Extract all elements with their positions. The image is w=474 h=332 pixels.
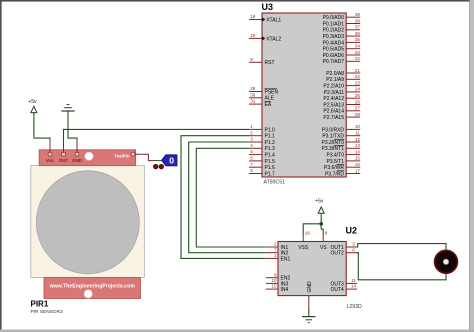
svg-text:14: 14 bbox=[351, 284, 357, 289]
svg-text:6: 6 bbox=[250, 156, 253, 161]
wire +5v down to junction bbox=[320, 213, 322, 229]
U3 pin 27 P2.6/A14 bbox=[323, 106, 360, 115]
IC U3 AT89C51 body bbox=[262, 13, 346, 177]
svg-text:L293D: L293D bbox=[347, 304, 363, 310]
svg-text:XTAL1: XTAL1 bbox=[266, 17, 281, 23]
svg-text:Vcc: Vcc bbox=[46, 158, 55, 163]
U2 pin 2 IN1 bbox=[266, 242, 289, 251]
svg-text:3: 3 bbox=[250, 137, 253, 142]
svg-text:+5v: +5v bbox=[315, 199, 324, 205]
svg-text:PIR1: PIR1 bbox=[31, 300, 49, 309]
svg-text:+5v: +5v bbox=[28, 99, 37, 105]
svg-text:P3.0/RXD: P3.0/RXD bbox=[322, 127, 345, 133]
U2 pin 10 IN3 bbox=[266, 278, 289, 287]
svg-text:U3: U3 bbox=[262, 2, 274, 12]
svg-text:GND: GND bbox=[307, 281, 313, 293]
U3 pin 14 P3.4/T0 bbox=[326, 149, 360, 158]
svg-text:P2.4/A12: P2.4/A12 bbox=[323, 96, 344, 102]
svg-text:19: 19 bbox=[250, 14, 256, 19]
junction dot at +5v branch bbox=[319, 222, 323, 226]
svg-text:7: 7 bbox=[250, 162, 253, 167]
probe dot 2 bbox=[159, 164, 164, 169]
svg-text:P3.1/TXD: P3.1/TXD bbox=[322, 134, 344, 140]
svg-text:IN4: IN4 bbox=[281, 287, 289, 293]
U3 pin 4 P1.3 bbox=[249, 143, 275, 152]
svg-text:34: 34 bbox=[355, 44, 361, 49]
U3 pin 31 EA bbox=[249, 99, 272, 108]
U3 pin 23 P2.2/A10 bbox=[323, 80, 360, 89]
svg-text:21: 21 bbox=[355, 68, 361, 73]
svg-text:2: 2 bbox=[274, 242, 277, 247]
svg-text:37: 37 bbox=[355, 25, 361, 30]
U2 pin 6 OUT2 bbox=[330, 247, 357, 256]
PIR1 Vcc pin stub bbox=[49, 140, 51, 153]
PIR1 pad GND bbox=[75, 152, 79, 156]
wire PIR OUT to U3 P1.0 bbox=[64, 129, 250, 140]
svg-text:XTAL2: XTAL2 bbox=[266, 36, 281, 42]
motor (DC motor symbol) bbox=[435, 250, 458, 273]
svg-text:15: 15 bbox=[355, 156, 361, 161]
svg-text:31: 31 bbox=[250, 99, 256, 104]
U3 pin 12 P3.2/INT0 bbox=[321, 137, 360, 146]
svg-text:24: 24 bbox=[355, 87, 361, 92]
PIR1 label Vcc bbox=[46, 158, 55, 163]
svg-text:11: 11 bbox=[355, 131, 360, 136]
svg-text:P1.4: P1.4 bbox=[265, 153, 276, 159]
svg-text:P1.7: P1.7 bbox=[265, 171, 276, 177]
U3 pin 26 P2.5/A13 bbox=[323, 99, 360, 108]
svg-text:8: 8 bbox=[325, 231, 328, 236]
svg-text:11: 11 bbox=[351, 278, 356, 283]
PIR1 bottom strip with site text bbox=[44, 278, 141, 299]
svg-text:GND: GND bbox=[72, 158, 83, 163]
svg-text:39: 39 bbox=[355, 12, 361, 17]
svg-text:9: 9 bbox=[274, 272, 277, 277]
svg-text:14: 14 bbox=[355, 149, 361, 154]
wire ground to PIR GND bbox=[68, 111, 77, 140]
svg-text:TestPin: TestPin bbox=[114, 154, 130, 159]
U2 pin 14 OUT4 bbox=[330, 284, 357, 293]
U3 pin 35 P0.4/AD4 bbox=[323, 37, 361, 46]
U2 reference label bbox=[346, 226, 358, 236]
svg-text:4: 4 bbox=[250, 143, 253, 148]
svg-text:3: 3 bbox=[352, 242, 355, 247]
U2 pin 9 EN2 bbox=[266, 272, 291, 281]
svg-text:2: 2 bbox=[250, 130, 253, 135]
PIR1 GND pin stub bbox=[76, 140, 78, 153]
svg-text:P2.3/A11: P2.3/A11 bbox=[324, 90, 344, 96]
svg-text:P2.0/A8: P2.0/A8 bbox=[326, 71, 344, 77]
svg-text:10: 10 bbox=[355, 124, 361, 129]
svg-text:EN1: EN1 bbox=[281, 256, 291, 262]
PIR1 reference label bbox=[31, 300, 49, 309]
svg-text:16: 16 bbox=[305, 231, 311, 236]
U2 pin 15 IN4 bbox=[266, 284, 289, 293]
svg-text:12: 12 bbox=[355, 137, 361, 142]
U3 pin 30 ALE bbox=[249, 92, 275, 101]
svg-text:EA: EA bbox=[265, 102, 272, 108]
U3 pin 17 P3.7/RD bbox=[325, 168, 360, 177]
svg-text:P0.7/AD7: P0.7/AD7 bbox=[323, 59, 345, 65]
U3 pin 34 P0.5/AD5 bbox=[323, 44, 361, 53]
svg-text:32: 32 bbox=[355, 56, 361, 61]
U3 pin 32 P0.7/AD7 bbox=[323, 56, 361, 65]
svg-text:P1.0: P1.0 bbox=[265, 127, 276, 133]
svg-text:P1.5: P1.5 bbox=[265, 159, 276, 165]
U3 reference label bbox=[262, 2, 274, 12]
svg-text:OUT2: OUT2 bbox=[330, 251, 344, 257]
svg-text:25: 25 bbox=[355, 93, 361, 98]
PIR1 OUT pin stub bbox=[63, 140, 65, 153]
U3 pin 28 P2.7/A15 bbox=[323, 112, 360, 121]
svg-text:P0.4/AD4: P0.4/AD4 bbox=[323, 40, 345, 46]
U3 pin 36 P0.3/AD3 bbox=[323, 31, 361, 40]
U3 pin 15 P3.5/T1 bbox=[326, 156, 360, 165]
svg-text:1: 1 bbox=[250, 124, 253, 129]
ground symbol (U2) bbox=[302, 317, 315, 323]
U3 pin 11 P3.1/TXD bbox=[322, 131, 360, 140]
wire U2 OUT2 to motor bottom bbox=[357, 253, 447, 280]
svg-text:30: 30 bbox=[250, 92, 256, 97]
svg-text:P1.1: P1.1 bbox=[265, 134, 276, 140]
U3 pin 13 P3.3/INT1 bbox=[321, 143, 360, 152]
U3 pin 38 P0.1/AD1 bbox=[323, 18, 361, 27]
U3 pin 10 P3.0/RXD bbox=[322, 124, 361, 133]
PIR1 pad TestPin bbox=[131, 152, 135, 156]
PIR1 top header strip bbox=[39, 150, 135, 166]
svg-text:6: 6 bbox=[352, 247, 355, 252]
U2 pin 7 IN2 bbox=[266, 247, 289, 256]
svg-text:AT89C51: AT89C51 bbox=[264, 180, 286, 186]
svg-text:8: 8 bbox=[250, 168, 253, 173]
wire U2 GND pin to ground bbox=[308, 307, 310, 317]
svg-text:9: 9 bbox=[250, 57, 253, 62]
svg-text:P3.3/INT1: P3.3/INT1 bbox=[321, 146, 344, 152]
U3 pin 18 XTAL2 bbox=[249, 33, 281, 42]
U2 value label L293D bbox=[347, 304, 363, 310]
svg-text:P2.6/A14: P2.6/A14 bbox=[323, 109, 344, 115]
svg-text:1: 1 bbox=[274, 253, 277, 258]
U3 pin 9 RST bbox=[249, 57, 275, 66]
svg-text:7: 7 bbox=[274, 247, 277, 252]
svg-text:P0.1/AD1: P0.1/AD1 bbox=[323, 21, 345, 27]
svg-text:P1.6: P1.6 bbox=[265, 165, 276, 171]
svg-text:OUT4: OUT4 bbox=[330, 287, 344, 293]
svg-text:27: 27 bbox=[355, 106, 361, 111]
wire TestPin to logic probe bbox=[154, 160, 162, 162]
svg-text:U2: U2 bbox=[346, 226, 358, 236]
svg-text:VS: VS bbox=[320, 245, 327, 251]
U3 pin 37 P0.2/AD2 bbox=[323, 25, 361, 34]
svg-text:P2.2/A10: P2.2/A10 bbox=[323, 84, 344, 90]
svg-text:P2.5/A13: P2.5/A13 bbox=[323, 102, 344, 108]
IC U2 L293D body bbox=[278, 242, 346, 296]
svg-text:38: 38 bbox=[355, 18, 361, 23]
wire U3 P1.1 to U2 EN1 bbox=[181, 136, 266, 259]
svg-text:29: 29 bbox=[250, 86, 256, 91]
PIR1 pad Vcc bbox=[48, 152, 52, 156]
wire +5v to PIR Vcc bbox=[34, 113, 50, 140]
svg-text:ALE: ALE bbox=[265, 96, 275, 102]
svg-text:P3.2/INT0: P3.2/INT0 bbox=[321, 140, 344, 146]
U3 pin 5 P1.4 bbox=[249, 149, 275, 158]
svg-text:13: 13 bbox=[355, 143, 361, 148]
svg-text:35: 35 bbox=[355, 37, 361, 42]
svg-text:23: 23 bbox=[355, 80, 361, 85]
U2 pin 3 OUT1 bbox=[330, 242, 357, 251]
U3 pin 19 XTAL1 bbox=[249, 14, 281, 23]
U3 pin 2 P1.1 bbox=[249, 130, 275, 139]
U3 pin 29 PSEN bbox=[249, 86, 279, 95]
svg-text:VSS: VSS bbox=[298, 245, 309, 251]
svg-text:P2.1/A9: P2.1/A9 bbox=[326, 77, 344, 83]
svg-text:28: 28 bbox=[355, 112, 361, 117]
U2 pin 16 VSS bbox=[298, 231, 310, 252]
svg-text:OUT: OUT bbox=[59, 158, 69, 163]
U3 pin 22 P2.1/A9 bbox=[326, 74, 360, 83]
U3 pin 3 P1.2 bbox=[249, 137, 275, 146]
PIR1 sensor board (cream base) bbox=[31, 166, 145, 278]
U2 pin 1 EN1 bbox=[266, 253, 291, 262]
U2 pin GND (bottom) bbox=[307, 281, 313, 307]
svg-text:PSEN: PSEN bbox=[265, 89, 279, 95]
U3 pin 16 P3.6/WR bbox=[324, 162, 360, 171]
svg-text:10: 10 bbox=[271, 278, 277, 283]
U3 pin 1 P1.0 bbox=[249, 124, 275, 133]
PIR1 label TestPin bbox=[114, 154, 130, 159]
wire U3 P1.2 to U2 IN2 bbox=[189, 142, 266, 253]
svg-text:22: 22 bbox=[355, 74, 361, 79]
ground symbol (PIR) bbox=[61, 105, 74, 111]
svg-text:P2.7/A15: P2.7/A15 bbox=[323, 115, 344, 121]
svg-text:16: 16 bbox=[355, 162, 361, 167]
svg-text:PIR SENSOR3: PIR SENSOR3 bbox=[31, 309, 64, 315]
PIR1 pad OUT bbox=[62, 152, 66, 156]
svg-text:P1.2: P1.2 bbox=[265, 140, 276, 146]
wire U2 OUT1 to motor top bbox=[357, 244, 447, 251]
wire junction to VSS pin16 bbox=[303, 224, 321, 236]
logic probe indicator "0" bbox=[162, 155, 177, 166]
U3 pin 25 P2.4/A12 bbox=[323, 93, 360, 102]
U3 pin 8 P1.7 bbox=[249, 168, 275, 177]
svg-text:P0.2/AD2: P0.2/AD2 bbox=[323, 28, 345, 34]
U3 pin 21 P2.0/A8 bbox=[326, 68, 360, 77]
U2 pin 11 OUT3 bbox=[330, 278, 357, 287]
svg-text:www.TheEngineeringProjects.com: www.TheEngineeringProjects.com bbox=[49, 284, 136, 290]
U3 pin 24 P2.3/A11 bbox=[324, 87, 361, 96]
svg-text:17: 17 bbox=[355, 168, 361, 173]
svg-text:P3.6/WR: P3.6/WR bbox=[324, 165, 344, 171]
U3 value label AT89C51 bbox=[264, 180, 286, 186]
svg-text:36: 36 bbox=[355, 31, 361, 36]
svg-text:5: 5 bbox=[250, 149, 253, 154]
svg-text:0: 0 bbox=[169, 156, 174, 166]
PIR1 label GND bbox=[72, 158, 83, 163]
svg-text:P0.3/AD3: P0.3/AD3 bbox=[323, 34, 345, 40]
wire U3 P1.3 to U2 IN1 bbox=[196, 148, 265, 247]
svg-text:18: 18 bbox=[250, 33, 256, 38]
U3 pin 7 P1.6 bbox=[249, 162, 275, 171]
svg-text:26: 26 bbox=[355, 99, 361, 104]
svg-text:RST: RST bbox=[265, 60, 275, 66]
svg-text:P0.6/AD6: P0.6/AD6 bbox=[323, 53, 345, 59]
PIR1 TestPin pin stub bbox=[135, 154, 154, 160]
PIR1 dome circle bbox=[36, 171, 139, 274]
PIR1 value label PIR SENSOR3 bbox=[31, 309, 64, 315]
svg-text:P3.5/T1: P3.5/T1 bbox=[326, 159, 344, 165]
svg-text:15: 15 bbox=[271, 284, 277, 289]
PIR1 label OUT bbox=[59, 158, 69, 163]
power +5v symbol (PIR) bbox=[28, 99, 37, 112]
svg-text:33: 33 bbox=[355, 50, 361, 55]
U3 pin 33 P0.6/AD6 bbox=[323, 50, 361, 59]
probe dot 1 bbox=[153, 164, 158, 169]
U3 pin 39 P0.0/AD0 bbox=[323, 12, 361, 21]
svg-text:P1.3: P1.3 bbox=[265, 146, 276, 152]
svg-text:P3.7/RD: P3.7/RD bbox=[325, 171, 344, 177]
wire junction to VS pin8 bbox=[321, 229, 323, 236]
power +5v symbol (U2) bbox=[315, 199, 324, 214]
svg-text:P0.0/AD0: P0.0/AD0 bbox=[323, 15, 345, 21]
svg-text:P3.4/T0: P3.4/T0 bbox=[326, 153, 344, 159]
svg-text:P0.5/AD5: P0.5/AD5 bbox=[323, 47, 345, 53]
U2 pin 8 VS bbox=[320, 231, 328, 252]
U3 pin 6 P1.5 bbox=[249, 156, 275, 165]
